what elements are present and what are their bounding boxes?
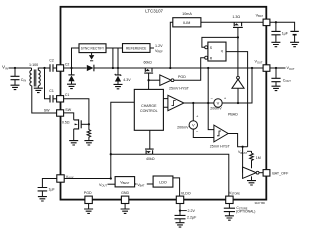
svg-text:2.2V: 2.2V xyxy=(188,209,196,213)
wire VAUX internal rail xyxy=(64,178,111,180)
inverter PBAD (points up) xyxy=(237,76,240,79)
ground clamp diode xyxy=(67,84,76,88)
latch U1 SR xyxy=(208,42,226,61)
svg-text:2.2µF: 2.2µF xyxy=(187,216,197,220)
svg-text:LTC3107: LTC3107 xyxy=(145,9,163,14)
svg-text:C1: C1 xyxy=(65,93,70,97)
svg-text:PBAD: PBAD xyxy=(228,112,238,116)
wire VAUX rail xyxy=(94,67,263,69)
source B 200mV xyxy=(192,103,194,121)
ground CIN xyxy=(11,85,20,89)
capacitor 1uF BAT xyxy=(275,22,277,31)
svg-text:C1: C1 xyxy=(49,89,54,93)
wire PGD output to latch R xyxy=(174,58,205,80)
wire PGD external xyxy=(88,204,90,210)
IC outline LTC3107 xyxy=(61,7,267,200)
wire gate node to latch S input xyxy=(202,37,238,47)
junction C2/C1 caps xyxy=(43,67,45,69)
svg-text:CIN: CIN xyxy=(21,78,26,83)
ground CSTORE xyxy=(225,216,234,220)
wire transformer secondary bottom xyxy=(37,86,39,88)
wire gate node to NMOS gate xyxy=(81,123,89,125)
diode D1 clamp xyxy=(68,74,74,76)
ground BAT_OFF inverter xyxy=(247,181,256,185)
svg-text:25mV HYST: 25mV HYST xyxy=(169,87,190,91)
ground VAUX cap xyxy=(38,197,47,201)
svg-text:VIN: VIN xyxy=(2,65,8,71)
svg-text:BAT_OFF: BAT_OFF xyxy=(272,172,289,176)
ground GND xyxy=(121,209,130,213)
junction PMOS gate node xyxy=(237,36,239,38)
wire CHARGE CONTROL left xyxy=(111,102,135,178)
junction inverter input tap xyxy=(237,102,239,104)
wire SYNC RECTIFY left to rail xyxy=(72,48,80,67)
capacitor CIN xyxy=(11,76,20,79)
svg-text:SW: SW xyxy=(44,109,50,113)
pin SW xyxy=(57,110,64,116)
svg-text:C2: C2 xyxy=(65,62,70,66)
wire BAT external xyxy=(270,22,295,31)
svg-text:V: V xyxy=(192,123,195,128)
junction SYNC supply tap xyxy=(112,67,114,69)
ground BAT cap xyxy=(271,42,280,46)
wire clamp diode top xyxy=(71,68,73,75)
svg-text:VBEST: VBEST xyxy=(120,180,130,185)
svg-text:VLDO: VLDO xyxy=(181,191,191,195)
svg-text:1µF: 1µF xyxy=(49,188,55,192)
zener 4.3V xyxy=(115,74,121,76)
wire BAT_OFF inverter ground stub xyxy=(251,176,253,180)
pin BAT_OFF xyxy=(263,170,270,177)
wire gate node down to PBAD inverter xyxy=(237,37,239,76)
svg-text:1µF: 1µF xyxy=(282,32,289,36)
svg-text:1:100: 1:100 xyxy=(29,63,38,67)
wire ILIM left drop to rail xyxy=(170,22,173,68)
wire SYNC to REFERENCE xyxy=(106,47,123,49)
svg-text:VOUT: VOUT xyxy=(255,60,263,65)
svg-text:VOUT: VOUT xyxy=(287,66,295,71)
wire transformer secondary top xyxy=(38,68,50,70)
wire NMOS source to ground xyxy=(73,129,75,141)
svg-text:4.3V: 4.3V xyxy=(123,78,131,82)
capacitor 1uF VAUX xyxy=(38,188,48,191)
junction VAUX riser xyxy=(110,177,112,179)
junction PGD input node xyxy=(147,79,149,81)
junction COUT tap xyxy=(275,67,277,69)
svg-text:0.5Ω: 0.5Ω xyxy=(62,120,70,124)
wire PMOS gate to latch node xyxy=(237,27,239,37)
svg-text:1.3Ω: 1.3Ω xyxy=(232,15,240,19)
ground transformer secondary xyxy=(34,88,43,92)
capacitor CSTORE xyxy=(224,208,235,211)
svg-text:PGD: PGD xyxy=(84,191,92,195)
wire LDO to VLDO pin xyxy=(173,178,180,196)
junction clamp diode tap xyxy=(70,67,72,69)
wire VSTORE external xyxy=(228,204,230,209)
svg-text:25mV HYST: 25mV HYST xyxy=(210,144,231,148)
svg-text:ILIM: ILIM xyxy=(183,21,190,25)
svg-text:VSTORE: VSTORE xyxy=(229,191,240,196)
wire VSTORE charge path xyxy=(111,154,229,196)
block LDO xyxy=(153,176,173,187)
wire C2 pin to rectifier rail xyxy=(64,67,87,69)
svg-text:40kΩ: 40kΩ xyxy=(146,157,155,161)
wire C1 pin to gate node xyxy=(64,99,89,125)
capacitor 2.2uF xyxy=(175,215,186,218)
resistor gate pulldown xyxy=(87,124,91,140)
ground gate pulldown xyxy=(84,141,93,145)
wire ILIM to BAT pin xyxy=(201,21,263,23)
svg-text:3107 BD: 3107 BD xyxy=(255,201,266,205)
wire REFERENCE output xyxy=(150,47,154,49)
wire latch Q output xyxy=(226,52,248,147)
ground battery xyxy=(290,42,299,46)
junction comparator B plus tap xyxy=(207,102,209,104)
svg-text:LDO: LDO xyxy=(159,181,167,185)
wire VLDO external xyxy=(179,204,181,216)
svg-text:VBAT: VBAT xyxy=(137,183,145,188)
wire CIN top xyxy=(14,68,16,76)
svg-text:SYNC RECTIFY: SYNC RECTIFY xyxy=(81,47,105,51)
junction REFERENCE supply tap xyxy=(117,67,119,69)
wire C2 cap to pin xyxy=(53,67,57,69)
ground NMOS source xyxy=(69,141,78,145)
svg-text:C2: C2 xyxy=(49,59,54,63)
wire 60k gate to node xyxy=(148,73,150,89)
block REFERENCE xyxy=(123,44,151,53)
svg-text:GND: GND xyxy=(121,191,129,195)
svg-text:60kΩ: 60kΩ xyxy=(143,61,152,65)
ground PGD xyxy=(84,209,93,213)
wire secondary node down to C1 cap xyxy=(45,68,51,99)
wire VAUX external xyxy=(42,179,56,188)
junction ILIM rail tap xyxy=(169,67,171,69)
capacitor COUT xyxy=(275,68,277,78)
svg-text:1M: 1M xyxy=(256,156,261,160)
wire source A to VOUT rail tap xyxy=(222,68,252,103)
junction 2.2V node xyxy=(179,209,181,211)
svg-text:10mA: 10mA xyxy=(182,12,192,16)
wire comparator A input stubs xyxy=(163,99,168,108)
wire VBAT label to LDO xyxy=(147,183,153,185)
svg-text:200mV: 200mV xyxy=(177,126,189,130)
diode D2 rectifier xyxy=(87,65,94,71)
wire VOUT external xyxy=(270,67,286,69)
junction comparator B rail tap xyxy=(207,67,209,69)
junction VIN/CIN xyxy=(14,67,16,69)
svg-text:VBEST: VBEST xyxy=(238,150,248,155)
wire BAT_OFF inverter input xyxy=(242,147,244,173)
inverter BAT_OFF xyxy=(243,167,257,178)
junction rail tap right xyxy=(251,67,253,69)
pin C1 xyxy=(57,96,64,102)
wire transformer primary bottom to SW xyxy=(32,86,57,113)
wire C1 cap to pin xyxy=(53,98,57,100)
svg-text:REFERENCE: REFERENCE xyxy=(126,47,147,51)
junction source B tap xyxy=(192,102,194,104)
wire CIN bottom xyxy=(14,80,16,86)
transistor PMOS VSTORE switch xyxy=(145,149,154,154)
pin VAUX xyxy=(57,175,64,182)
wire GND external xyxy=(124,204,126,210)
buffer PGD xyxy=(160,75,171,86)
svg-text:CONTROL: CONTROL xyxy=(140,109,158,113)
svg-text:PGD: PGD xyxy=(178,75,186,79)
svg-text:COUT: COUT xyxy=(283,79,292,84)
ground COUT xyxy=(272,86,281,90)
wire transformer primary top xyxy=(31,68,33,70)
wire SYNC supply drop xyxy=(112,48,114,68)
svg-text:VOUT: VOUT xyxy=(99,183,107,188)
svg-text:1.2V: 1.2V xyxy=(155,44,163,48)
wire SW internal to NMOS drain xyxy=(64,113,74,120)
wire PGD buffer input node xyxy=(149,79,160,81)
wire source B to comparator B minus xyxy=(193,129,214,137)
wire VSTORE switch gate xyxy=(149,130,151,149)
junction BAT cap tap xyxy=(275,21,277,23)
junction BAT_OFF drive tap xyxy=(241,146,243,148)
block SYNC RECTIFY xyxy=(79,44,106,53)
pin C2 xyxy=(57,65,64,71)
wire inverter input to sense line xyxy=(237,88,239,103)
svg-text:V: V xyxy=(217,101,220,106)
svg-text:200mV: 200mV xyxy=(210,106,222,110)
wire comparator B output xyxy=(228,134,248,147)
wire comparator A output xyxy=(184,102,214,104)
driver arrow SYNC RECTIFY xyxy=(91,53,93,56)
wire VBEST to VBAT label xyxy=(135,183,137,185)
resistor 1M xyxy=(250,151,254,168)
svg-text:VREF: VREF xyxy=(155,49,163,54)
wire VIN to transformer primary xyxy=(9,67,32,69)
wire REFERENCE supply drop xyxy=(117,48,119,75)
svg-text:CHARGE: CHARGE xyxy=(141,104,157,108)
block CHARGE CONTROL xyxy=(134,89,163,130)
comparator B 25mV HYST xyxy=(214,125,228,142)
junction VSTORE tap xyxy=(110,153,112,155)
svg-text:(OPTIONAL): (OPTIONAL) xyxy=(236,210,255,214)
svg-text:VBAT: VBAT xyxy=(256,14,264,19)
ground zener xyxy=(114,84,123,88)
junction gate node xyxy=(88,123,90,125)
wire comparator B plus input xyxy=(208,68,214,130)
wire BAT_OFF inverter output xyxy=(259,172,263,174)
svg-text:SW: SW xyxy=(65,108,71,112)
ground VLDO cap xyxy=(176,223,185,227)
battery BT1 xyxy=(290,31,298,34)
